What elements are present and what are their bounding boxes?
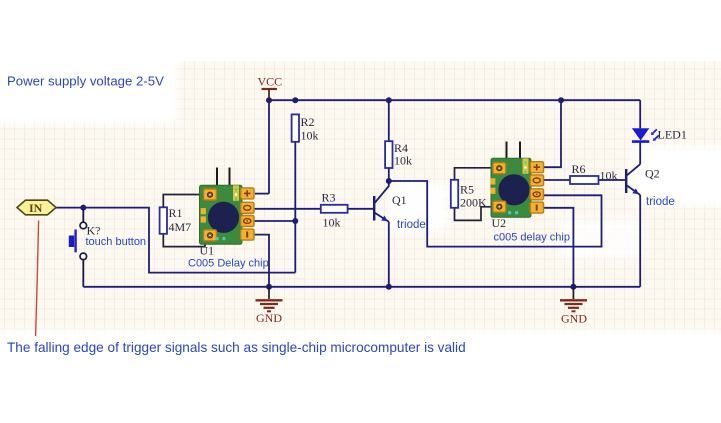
- transistor Q2: [626, 164, 675, 208]
- svg-text:R6: R6: [572, 162, 586, 176]
- svg-text:10k: 10k: [323, 216, 341, 230]
- wire Q1 emitter down: [388, 222, 390, 287]
- svg-text:triode: triode: [397, 219, 426, 231]
- wire U1 pad2 to R3: [254, 208, 321, 210]
- wire U1 pad3: [254, 220, 295, 222]
- wire R5 top to U2 pad TL: [455, 168, 498, 180]
- wire R2 bottom vertical: [294, 142, 296, 273]
- svg-text:10k: 10k: [394, 154, 412, 168]
- wire top bus: [269, 99, 640, 101]
- wire bottom-left loop to IN: [56, 208, 295, 273]
- transistor Q1: [374, 181, 426, 231]
- svg-text:IN: IN: [29, 201, 43, 215]
- node junction U1 pad3: [292, 218, 298, 224]
- node junction R2 top: [292, 97, 298, 103]
- svg-text:triode: triode: [646, 196, 675, 208]
- svg-text:U1: U1: [200, 244, 215, 258]
- svg-text:C005 Delay chip: C005 Delay chip: [188, 258, 269, 270]
- svg-text:R2: R2: [301, 115, 315, 129]
- node junction Q1 collector: [386, 178, 392, 184]
- svg-text:10k: 10k: [301, 129, 319, 143]
- svg-text:R5: R5: [460, 183, 474, 197]
- wire R3 to Q1 base: [348, 208, 375, 210]
- wire U2 pad1 to top bus: [544, 100, 561, 167]
- node junction U2 plus branch: [558, 97, 564, 103]
- resistor R2: [292, 114, 319, 142]
- ground GND1: [256, 287, 283, 325]
- node junction GND1: [266, 284, 272, 290]
- module U2: [490, 142, 570, 244]
- wire top bus to LED1: [639, 100, 641, 128]
- node junction VCC bus: [266, 97, 272, 103]
- module U1: [188, 168, 269, 270]
- resistor R5: [451, 180, 487, 210]
- wire U1 pad4 to GND bus: [254, 235, 269, 287]
- wire VCC vertical to U1 pad1: [268, 100, 270, 193]
- resistor R6: [570, 162, 618, 184]
- resistor R3: [321, 191, 348, 230]
- wire Q2 emitter down: [639, 195, 641, 287]
- annotation leader line: [36, 221, 39, 337]
- svg-text:The falling edge of trigger si: The falling edge of trigger signals such…: [7, 340, 466, 355]
- node junction GND2: [570, 284, 576, 290]
- node junction IN-switch: [80, 205, 86, 211]
- wire LED1 to Q2 collector: [639, 142, 641, 164]
- wire switch upper: [82, 208, 84, 223]
- svg-text:c005 delay chip: c005 delay chip: [494, 232, 570, 244]
- wire switch lower: [82, 260, 84, 287]
- svg-text:Q2: Q2: [645, 167, 660, 181]
- resistor R1: [160, 206, 192, 234]
- switch K? touch button: [69, 222, 146, 259]
- svg-text:200K: 200K: [460, 196, 487, 210]
- wire U2 pad4 to GND bus: [544, 208, 573, 287]
- svg-text:GND: GND: [256, 311, 282, 325]
- node junction Q1 emitter bus: [386, 284, 392, 290]
- wire R4 top: [388, 100, 390, 141]
- svg-text:R3: R3: [322, 191, 336, 205]
- svg-text:Q1: Q1: [392, 193, 407, 207]
- wire Q1 collector loop to U2 pad3: [389, 181, 602, 247]
- wire bottom bus: [83, 286, 640, 288]
- resistor R4: [385, 141, 412, 168]
- svg-text:U2: U2: [492, 216, 507, 230]
- ground GND2: [560, 287, 587, 326]
- node junction R4 top: [386, 97, 392, 103]
- svg-text:Power supply voltage 2-5V: Power supply voltage 2-5V: [7, 74, 164, 89]
- svg-text:10k: 10k: [600, 169, 618, 183]
- power port VCC: [258, 75, 283, 101]
- svg-text:touch button: touch button: [86, 236, 147, 248]
- wire R5 bottom zigzag to U2 pad BL: [455, 207, 498, 221]
- svg-text:4M7: 4M7: [169, 220, 192, 234]
- port IN: [17, 200, 56, 215]
- svg-text:GND: GND: [561, 312, 587, 326]
- wire U1 pad1 to VCC vertical: [255, 193, 269, 195]
- wire R6 to Q2 base: [599, 179, 627, 181]
- svg-text:LED1: LED1: [658, 128, 687, 142]
- wire U2 pad2 to R6: [544, 179, 570, 181]
- wire R1 bottom to U1 bottom-left pad: [163, 234, 205, 247]
- svg-text:VCC: VCC: [258, 75, 283, 89]
- LED1: [632, 128, 687, 142]
- wire R4 bottom to Q1 collector node: [388, 168, 390, 181]
- wire R1 top to U1 pad1 hole: [163, 195, 209, 208]
- svg-text:R1: R1: [169, 206, 183, 220]
